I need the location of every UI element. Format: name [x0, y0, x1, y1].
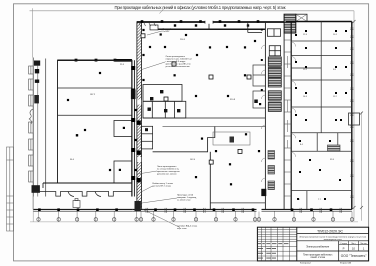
- annotation F: [177, 194, 197, 202]
- mid vertical wall: [209, 152, 211, 210]
- svg-text:до пола ВУ 2 этажа: до пола ВУ 2 этажа: [153, 185, 172, 187]
- svg-text:линий. 2 этаж: линий. 2 этаж: [310, 256, 325, 259]
- small panels on left wall: [35, 69, 39, 73]
- svg-text:Стадия: Стадия: [340, 243, 347, 245]
- main hall left building: [58, 60, 132, 183]
- roomlets against corridor wall: [253, 65, 265, 108]
- svg-text:Копировал: Копировал: [300, 263, 312, 265]
- corridor walls: [264, 22, 266, 209]
- shaft striped blocks: [268, 57, 281, 66]
- bottom dimension line and grid bubbles: [30, 197, 358, 222]
- rooms beside central wall: [114, 121, 132, 137]
- svg-text:142.0: 142.0: [190, 159, 196, 161]
- svg-text:10: 10: [352, 246, 356, 250]
- hall bottom wall: [43, 182, 132, 184]
- title block: [257, 227, 368, 261]
- closet cells strip: [284, 40, 291, 196]
- corridor left room dots: [261, 29, 263, 31]
- inner wall line: [45, 59, 47, 197]
- stepped wall: [153, 127, 215, 152]
- crenellated corridor wall: [33, 192, 132, 197]
- svg-text:инженерные сети: инженерные сети: [324, 239, 343, 241]
- svg-text:черт. план: черт. план: [177, 228, 187, 230]
- tiny vertical labels in corridor: [287, 56, 289, 148]
- svg-text:План прокладки кабельных: План прокладки кабельных: [303, 254, 333, 256]
- left side stamp table: [7, 147, 14, 231]
- svg-text:деталям каб. колонн: деталям каб. колонн: [157, 173, 177, 175]
- cluster of small rooms mid-plan: [143, 85, 265, 127]
- blobs on hatched wall: [136, 121, 140, 125]
- right building top wall: [137, 21, 286, 23]
- central hatched shear wall (right building west wall): [137, 22, 142, 210]
- svg-text:установке без включения: установке без включения: [166, 66, 190, 68]
- svg-text:234.5: 234.5: [180, 39, 186, 41]
- svg-text:ТЛ/012-2020.ЭС: ТЛ/012-2020.ЭС: [317, 229, 343, 233]
- small cart symbol in corridor: [73, 199, 80, 208]
- bottom exterior wall left part: [33, 208, 133, 210]
- svg-text:При прокладке кабельных линий: При прокладке кабельных линий в офисах (…: [115, 5, 286, 10]
- corridor radiators: [268, 151, 275, 160]
- annotation E: [177, 226, 198, 230]
- top wall door opening: [205, 21, 213, 24]
- svg-text:Р: Р: [343, 246, 345, 250]
- top stair tower: [284, 14, 296, 33]
- svg-text:187.2: 187.2: [90, 94, 96, 96]
- bottom exterior wall right part: [133, 208, 352, 210]
- left building top wall: [58, 59, 132, 61]
- svg-text:310.8: 310.8: [230, 99, 236, 101]
- door arcs corridor: [261, 42, 295, 182]
- svg-text:Лист: Лист: [351, 243, 355, 245]
- tiny room labels: [70, 34, 338, 201]
- annotation A: [166, 56, 192, 68]
- scattered ceiling dots: [67, 29, 260, 186]
- annotation D: [153, 183, 174, 187]
- right rooms band: [351, 22, 353, 210]
- window ticks right wall: [350, 28, 353, 198]
- left building east wall: [131, 60, 133, 196]
- room column below cluster: [141, 126, 152, 149]
- inner gallery wall along top: [158, 28, 265, 30]
- annotation B: [163, 29, 175, 33]
- window ticks bottom wall: [146, 208, 342, 213]
- left exterior window wall: [29, 58, 38, 210]
- svg-text:Кл ВРУ: Кл ВРУ: [163, 31, 171, 33]
- dark hatch at wall base near central wall: [135, 201, 141, 211]
- svg-text:на облип этаж: на облип этаж: [177, 199, 191, 201]
- svg-text:Электроснабжение: Электроснабжение: [306, 245, 330, 249]
- vestibule step: [248, 22, 262, 33]
- svg-text:ООО "Техносеть": ООО "Техносеть": [341, 254, 367, 258]
- boxed equipment symbols: [141, 34, 251, 164]
- dark panel at bottom corridor: [261, 189, 266, 196]
- svg-text:Формат А3: Формат А3: [340, 262, 352, 265]
- top dimension line: [30, 8, 364, 221]
- svg-text:Листов: Листов: [360, 243, 367, 245]
- annotation C: [157, 166, 180, 175]
- stair block 2 grid: [267, 29, 280, 56]
